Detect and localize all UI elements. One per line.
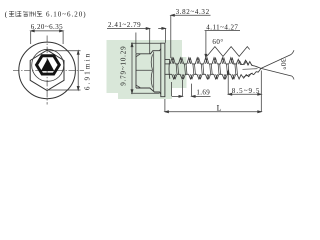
- drill point bottom outline: [236, 68, 261, 79]
- svg-text:6.10~6.20): 6.10~6.20): [46, 10, 87, 18]
- drill point axis flute edge: [243, 68, 258, 71]
- top teeth stroke 2: [172, 58, 234, 64]
- bottom root outline: [177, 73, 231, 75]
- svg-text:60°: 60°: [212, 38, 223, 46]
- chamfer circle around emblem: [32, 49, 64, 81]
- helix lines: [176, 64, 237, 74]
- crest flats: [172, 58, 234, 79]
- 30 degree point angle callout: [261, 50, 294, 79]
- top teeth stroke 1: [170, 58, 233, 64]
- drill point top second stroke: [238, 61, 253, 66]
- flange: [161, 43, 165, 96]
- svg-text:9.79~10.29: 9.79~10.29: [120, 46, 128, 86]
- emblem: central triangle: [41, 59, 55, 72]
- shank crest/root lines: [165, 58, 170, 60]
- hex top edge: [136, 49, 161, 54]
- emblem: black flat-top hexagon ring: [35, 54, 61, 75]
- svg-text:L: L: [217, 103, 222, 112]
- vertical centerline (top view): [46, 36, 48, 105]
- svg-text:4.11~4.27: 4.11~4.27: [206, 23, 238, 31]
- profile zigzag: [207, 47, 250, 57]
- dim line 3.82~4.32: [171, 14, 211, 58]
- svg-text:6.20~6.35: 6.20~6.35: [31, 23, 63, 31]
- dim line 2.41~2.79: [107, 27, 166, 54]
- flange circle (top view): [19, 42, 76, 99]
- hex mid facet edge: [136, 69, 152, 71]
- cone tangent edge: [153, 52, 155, 92]
- svg-text:3.82~4.32: 3.82~4.32: [176, 8, 210, 16]
- svg-text:1.69: 1.69: [196, 89, 210, 97]
- dim 6.91min extension lines: [49, 51, 81, 90]
- watermark: [107, 40, 187, 99]
- svg-text:2.41~2.79: 2.41~2.79: [108, 21, 141, 29]
- horizontal centerline (top view): [13, 69, 84, 71]
- hex bottom edge: [136, 88, 161, 94]
- label (電鍍前對邊 6.10~6.20): [5, 9, 87, 18]
- screw head side profile: [136, 43, 165, 96]
- drill point top outline: [233, 59, 261, 68]
- shank and threads: [165, 58, 261, 79]
- svg-text:30°: 30°: [279, 58, 288, 70]
- emblem: small tick below triangle: [46, 73, 49, 74]
- bottom teeth stroke 1: [172, 74, 235, 79]
- svg-text:8.5~9.5: 8.5~9.5: [232, 87, 261, 95]
- bottom teeth stroke 2: [174, 74, 236, 78]
- hex facet arcs: [151, 54, 152, 87]
- top root outline: [175, 63, 229, 65]
- drill point flute: [244, 73, 253, 77]
- first thread run-out curve: [168, 59, 171, 78]
- head face chamfer arcs: [136, 54, 140, 87]
- dim line 6.20~6.35: [31, 30, 63, 44]
- head top face: [135, 54, 137, 88]
- hexagon (top view, pointy top): [30, 50, 64, 90]
- svg-text:6.91min: 6.91min: [84, 52, 92, 90]
